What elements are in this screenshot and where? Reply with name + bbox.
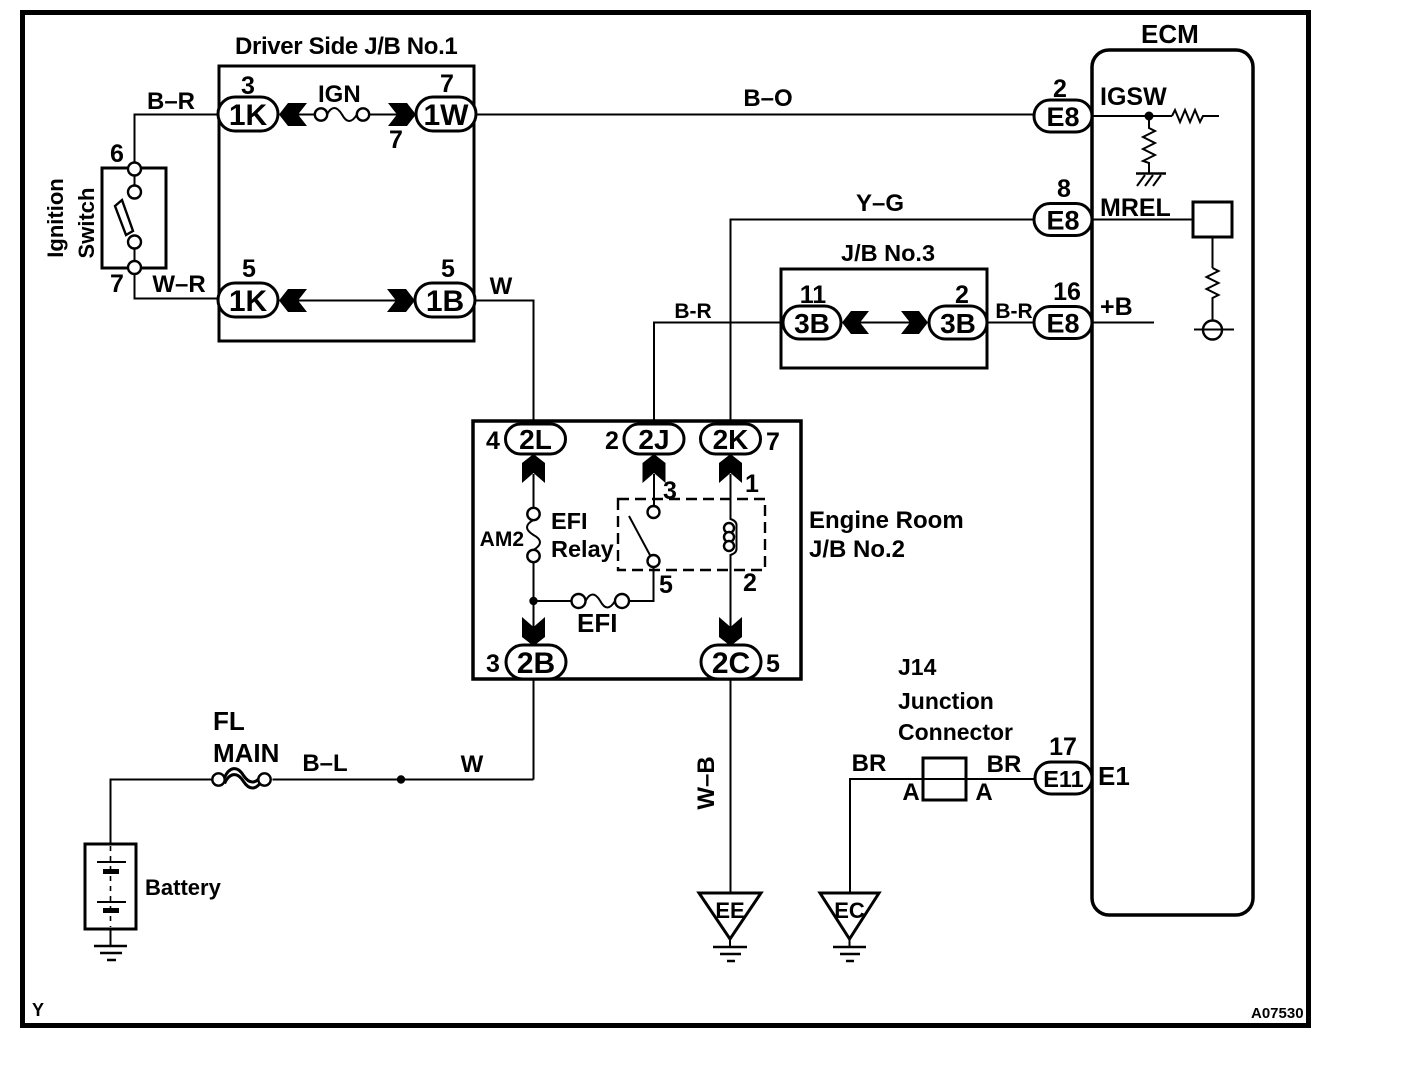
label AM2 [480,528,524,551]
junction node on AM2 wire [529,597,537,605]
connector 2C [701,645,761,680]
IGSW pull-down resistor [1143,120,1155,174]
svg-text:B-R: B-R [995,300,1032,323]
ignition switch labels [43,178,99,258]
page code Y [32,1000,44,1020]
arrow up under 2L [522,454,545,483]
svg-text:A: A [975,779,992,806]
svg-text:Relay: Relay [551,536,614,562]
svg-text:EFI: EFI [577,608,617,638]
IGSW internal wire and resistor [1092,110,1219,122]
label W [490,273,513,300]
ignition switch internals [115,163,141,275]
connector 2K [701,424,761,455]
fuse AM2 [527,508,540,562]
svg-text:J/B No.2: J/B No.2 [809,536,905,563]
junction node on battery wire [397,775,405,783]
internal resistor [1207,268,1219,321]
svg-text:J/B No.3: J/B No.3 [841,240,935,266]
connector E11 [1035,762,1092,794]
fuse IGN [297,108,398,121]
wire B-R from ignition switch pin 6 to 1K [135,115,219,163]
svg-text:Driver Side J/B No.1: Driver Side J/B No.1 [235,33,457,60]
svg-text:E8: E8 [1046,206,1079,236]
pin 2 below coil [743,569,757,597]
pin 2 [605,427,619,455]
svg-text:5: 5 [659,571,673,599]
connector 1B [415,283,475,318]
label J14 Junction Connector [898,654,1013,745]
svg-text:+B: +B [1100,293,1133,321]
svg-text:B–R: B–R [147,88,195,115]
pin 11 [800,281,827,309]
svg-text:W–R: W–R [152,271,205,298]
pin 5 above 1B [441,255,455,283]
node on IGSW wire [1145,112,1154,121]
svg-text:1: 1 [745,470,759,498]
pin 17 above E11 [1049,733,1077,761]
svg-text:16: 16 [1053,278,1081,306]
wire 2B down to battery feed [533,679,535,780]
connector 2J [624,424,684,455]
ground below battery [94,929,127,960]
fusible link FL MAIN [212,769,270,788]
svg-text:EC: EC [834,898,865,923]
internal contact circle [1194,321,1234,340]
label FL MAIN [213,706,279,768]
junction block Engine Room J/B No.2 box [473,421,801,679]
label B-O [743,85,792,112]
svg-text:8: 8 [1057,175,1071,203]
label BR left [852,750,887,777]
junction block J/B No.3 box [781,269,987,368]
arrow into 1W [388,103,416,126]
svg-text:Engine Room: Engine Room [809,507,964,534]
svg-text:Ignition: Ignition [43,178,68,257]
relay contact switch [629,506,660,567]
svg-text:1K: 1K [229,99,268,132]
svg-text:Y: Y [32,1000,44,1020]
pin 7 label [110,270,124,298]
svg-text:1W: 1W [424,99,470,132]
label EFI fuse [577,608,617,638]
connector 1W [416,97,476,132]
pin 7 below arrow [389,126,403,154]
wire EC branch to E11 [850,779,1035,893]
pin 5 below relay contact [659,571,673,599]
svg-text:7: 7 [440,70,454,98]
svg-text:7: 7 [110,270,124,298]
label BR right [987,751,1022,778]
junction block J/B No.1 title [235,33,457,60]
svg-text:2B: 2B [517,647,555,680]
relay coil on 2K wire [724,474,737,627]
ECM box [1092,50,1253,915]
label W [461,751,484,778]
pin 2 above E8 [1053,75,1067,103]
arrow into 3B left [842,311,869,334]
ECM title [1141,19,1199,49]
svg-text:3B: 3B [794,308,830,339]
wire W from 1B to 2L [475,301,534,425]
svg-text:7: 7 [389,126,403,154]
wire 2L to AM2 [533,474,535,508]
svg-text:IGN: IGN [318,81,361,108]
svg-text:1B: 1B [426,285,464,318]
svg-text:ECM: ECM [1141,19,1199,49]
svg-text:J14: J14 [898,654,937,680]
connector 1K bottom [218,283,278,318]
junction block J/B No.1 box [219,66,474,341]
fuse EFI [534,594,630,608]
svg-text:7: 7 [766,428,780,456]
svg-text:Battery: Battery [145,875,222,900]
pin 4 [486,427,500,455]
connector 2L [506,424,566,455]
svg-text:17: 17 [1049,733,1077,761]
svg-text:1K: 1K [229,285,268,318]
svg-text:A: A [902,779,919,806]
arrow into 1K [279,103,307,126]
relay driver square [1193,202,1232,237]
svg-text:EE: EE [715,898,744,923]
pin 3 near 2J arrow [663,477,677,505]
wire 2J arrow to relay contact [653,474,655,506]
label IGSW [1100,83,1167,111]
MREL internal wire [1092,219,1193,221]
junction block J/B No.3 title [841,240,935,266]
svg-text:E8: E8 [1046,102,1079,132]
svg-text:Y–G: Y–G [856,190,904,217]
relay dashed box [618,499,765,570]
svg-text:6: 6 [110,140,124,168]
arrow into lower 1K [279,289,307,312]
svg-text:4: 4 [486,427,500,455]
svg-text:2: 2 [743,569,757,597]
svg-text:3: 3 [486,650,500,678]
svg-text:5: 5 [441,255,455,283]
wire contact to EFI fuse [629,567,654,601]
connector 3B left [783,306,841,339]
wire W-R from pin 7 to lower 1K [135,274,219,299]
label A left [902,779,919,806]
svg-text:W: W [461,751,484,778]
svg-text:2L: 2L [519,424,552,455]
label A right [975,779,992,806]
wire between arrows [297,300,397,302]
pin 6 label [110,140,124,168]
label B-L [302,750,347,777]
junction connector J14 box [923,758,966,800]
svg-text:2K: 2K [713,424,749,455]
arrow up under 2J [643,454,666,483]
label MREL [1100,194,1171,222]
pin 7 [766,428,780,456]
svg-text:Connector: Connector [898,719,1013,745]
connector E8 pin 2 [1034,100,1092,132]
arrow into 3B right [901,311,928,334]
wire between 3B arrows [859,322,911,324]
fuse IGN label [318,81,361,108]
label B-R small right [995,300,1032,323]
label B-R small left [674,300,711,323]
pin 2 above 3B right [955,281,969,309]
label E1 [1098,761,1130,791]
svg-text:E11: E11 [1043,766,1084,792]
battery [85,844,136,929]
label +B [1100,293,1133,321]
svg-text:W: W [490,273,513,300]
label Y-G [856,190,904,217]
svg-text:2C: 2C [712,647,750,680]
figure number A07530 [1251,1005,1304,1022]
pin 3 [241,72,255,100]
connector 1K top [218,97,278,132]
svg-text:A07530: A07530 [1251,1005,1304,1022]
ground EE [699,893,761,961]
label Battery [145,875,222,900]
svg-text:AM2: AM2 [480,528,524,551]
svg-text:B–L: B–L [302,750,347,777]
svg-text:3B: 3B [940,308,976,339]
svg-text:B–O: B–O [743,85,792,112]
pin 16 above E8 [1053,278,1081,306]
pin 5 above lower 1K [242,255,256,283]
svg-text:Junction: Junction [898,688,994,714]
svg-text:Switch: Switch [74,188,99,259]
pin 3 [486,650,500,678]
svg-text:EFI: EFI [551,508,588,534]
label W-R [152,271,205,298]
svg-text:IGSW: IGSW [1100,83,1167,111]
connector E8 pin 16 [1034,307,1092,339]
label B-R [147,88,195,115]
svg-text:5: 5 [242,255,256,283]
svg-text:MREL: MREL [1100,194,1171,222]
arrow down to 2B [522,617,545,646]
wire AM2 to 2B arrow [533,562,535,627]
svg-text:MAIN: MAIN [213,738,279,768]
battery feed wire [111,780,534,845]
connector E8 pin 8 [1034,204,1092,236]
arrow up under 2K [719,454,742,483]
+B internal stub [1092,322,1154,324]
wire B-O from 1W to ECM E8-2 [476,114,1034,116]
pin 8 above E8 [1057,175,1071,203]
svg-text:2J: 2J [638,424,669,455]
label W-B rotated [693,756,720,809]
wire B-R from 2J to J/B No.3 [654,323,783,425]
wire 3B to E8-16 [987,322,1034,324]
pin 1 near 2K arrow [745,470,759,498]
svg-text:E8: E8 [1046,309,1079,339]
label Engine Room J/B No.2 [809,507,964,563]
svg-text:BR: BR [852,750,887,777]
wire Y-G from 2K to ECM E8-8 [731,220,1035,425]
svg-text:FL: FL [213,706,245,736]
svg-text:2: 2 [605,427,619,455]
svg-text:BR: BR [987,751,1022,778]
svg-text:5: 5 [766,650,780,678]
label EFI Relay [551,508,614,562]
svg-text:E1: E1 [1098,761,1130,791]
ground inside ECM [1136,174,1166,187]
wire W-B from 2C to ground EE [730,679,732,893]
ignition switch box [102,168,166,268]
arrow into 1B [387,289,415,312]
svg-text:3: 3 [663,477,677,505]
connector 2B [506,645,566,680]
wire square to resistor [1212,237,1214,268]
ground EC [820,893,879,961]
svg-text:W–B: W–B [693,756,720,809]
connector 3B right [929,306,987,339]
pin 7 above 1W [440,70,454,98]
svg-text:B-R: B-R [674,300,711,323]
arrow down to 2C [719,617,742,646]
pin 5 [766,650,780,678]
